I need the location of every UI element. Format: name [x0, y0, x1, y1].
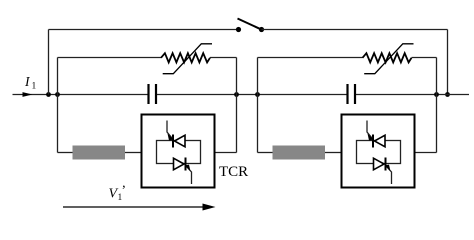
node A1 (left outer junction) — [46, 92, 51, 97]
wire left inner riser (varistor branch to reactor branch) — [57, 58, 59, 153]
thyristor T2 (bottom, pointing right) — [174, 158, 192, 185]
thyristor T4 (bottom, pointing right) — [374, 158, 392, 185]
wire reactor 2 to TCR box 2 — [325, 152, 341, 154]
wire left outer riser to bypass rail — [48, 30, 50, 95]
capacitor C2 — [348, 84, 356, 104]
thyristor T1 (top, pointing left) — [167, 121, 185, 148]
wire reactor branch 2 left — [258, 152, 273, 154]
svg-text:’: ’ — [122, 183, 127, 198]
capacitor C1 — [149, 84, 157, 104]
svg-text:1: 1 — [32, 82, 37, 92]
thyristor T3 (top, pointing left) — [367, 121, 385, 148]
wire main line mid segment — [157, 94, 347, 96]
node B4 (right outer junction) — [445, 92, 450, 97]
switch S1 (open bypass breaker) — [236, 19, 264, 33]
wire reactor branch 1 left — [58, 152, 73, 154]
wire left riser of section 2 — [257, 58, 259, 153]
TCR box 1 — [142, 115, 215, 188]
wire bypass top rail left segment — [49, 29, 239, 31]
node A2 (left inner junction) — [55, 92, 60, 97]
label V1' — [109, 183, 127, 204]
wire main line right segment — [356, 94, 469, 96]
wire right riser of section 1 — [236, 58, 238, 153]
TCR box 2 — [342, 115, 415, 188]
wire varistor branch 1 — [58, 57, 237, 59]
varistor MOV2 — [363, 44, 414, 74]
wire TCR box 2 to node B2 — [416, 152, 437, 154]
voltage arrow V1' — [63, 204, 216, 211]
wire TCR box 1 to node B1 — [216, 152, 237, 154]
wire thyristor loop 2 — [357, 141, 401, 164]
node B2 (right inner junction of section 2) — [434, 92, 439, 97]
wire varistor branch 2 — [258, 57, 437, 59]
svg-text:I: I — [24, 74, 31, 89]
node C1 (left junction of section 2) — [255, 92, 260, 97]
reactor L2 (grey block) — [273, 146, 326, 160]
reactor L1 (grey block) — [73, 146, 126, 160]
varistor MOV1 — [161, 44, 212, 74]
wire bypass top rail right segment — [262, 29, 448, 31]
wire reactor 1 to TCR box 1 — [125, 152, 141, 154]
node B1 (right junction of section 1) — [234, 92, 239, 97]
wire right riser of section 2 — [436, 58, 438, 153]
wire thyristor loop 1 — [157, 141, 201, 164]
label I1 — [24, 74, 37, 92]
wire main line left segment with I1 arrow — [13, 92, 148, 97]
wire right outer riser from bypass rail — [447, 30, 449, 95]
svg-text:TCR: TCR — [219, 164, 248, 180]
